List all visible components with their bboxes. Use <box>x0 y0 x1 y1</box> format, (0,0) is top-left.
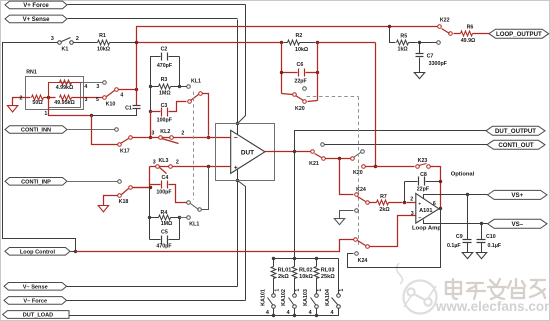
wire VS- line <box>424 220 488 224</box>
junction C9 tap <box>466 193 469 196</box>
junction C3 rail to inverting line <box>207 136 210 139</box>
port Loop Control <box>5 248 70 256</box>
wire V+ Force to right <box>68 4 246 6</box>
svg-text:Optional: Optional <box>451 172 475 178</box>
wire Loop Control to junction <box>71 251 76 253</box>
svg-text:KL1: KL1 <box>191 79 201 85</box>
svg-text:2: 2 <box>176 159 179 165</box>
svg-text:3300pF: 3300pF <box>429 61 448 67</box>
junction C1 / K17 node <box>90 114 93 117</box>
svg-text:RL01: RL01 <box>278 267 292 273</box>
wire V+ Sense to right <box>68 18 238 20</box>
relay linkage dashed from K20 <box>307 96 359 98</box>
wire V- Force <box>67 300 246 302</box>
svg-text:6: 6 <box>433 201 436 207</box>
wire A101 pin3 input <box>370 216 416 247</box>
capacitor C8 22pF <box>405 181 418 183</box>
port V- Sense <box>4 283 67 291</box>
svg-text:C3: C3 <box>161 103 168 109</box>
svg-text:10kΩ: 10kΩ <box>97 47 111 53</box>
contact K24 upper open to ground <box>355 209 359 213</box>
resistor R7 2k <box>370 202 377 204</box>
wire R5 to K22 contact <box>420 42 437 44</box>
capacitor C5 470pF <box>150 239 161 241</box>
svg-text:K24: K24 <box>358 258 368 264</box>
svg-text:C2: C2 <box>161 47 168 53</box>
wire DUT output down to load rail <box>294 152 296 259</box>
op-amp A101 triangle <box>416 193 439 223</box>
svg-text:4: 4 <box>120 92 123 98</box>
wire KL right rail upper <box>179 57 181 87</box>
resistor R6 49.9 <box>461 31 473 36</box>
svg-text:R4: R4 <box>161 210 168 216</box>
svg-text:K23: K23 <box>418 158 428 164</box>
switch K10 <box>103 96 107 100</box>
junction K24 tap <box>338 157 341 160</box>
svg-text:0.1µF: 0.1µF <box>487 243 501 249</box>
wire DUT supply stub top <box>237 124 239 135</box>
svg-text:50Ω: 50Ω <box>32 100 43 106</box>
wire RN1 pin4 to K10 open contact <box>82 82 103 84</box>
junction K10 / C1 rail <box>135 88 138 91</box>
svg-text:3: 3 <box>153 159 156 165</box>
svg-text:470pF: 470pF <box>157 63 173 69</box>
svg-text:Loop Amp: Loop Amp <box>412 225 441 231</box>
svg-text:3: 3 <box>96 84 99 90</box>
svg-text:1MΩ: 1MΩ <box>161 221 173 227</box>
resistor R3 1M <box>151 86 159 88</box>
wire K23 to output node <box>431 167 441 209</box>
svg-text:KA102: KA102 <box>281 289 287 306</box>
wire A101 pin2 input <box>407 202 416 204</box>
junction C8 right <box>439 180 442 183</box>
junction minus line left <box>149 136 152 139</box>
capacitor C6 22pF <box>282 72 298 74</box>
wire KL3 feed from K18 <box>131 167 150 188</box>
relay linkage dashed KL <box>193 92 195 200</box>
wire VS+ line <box>424 195 488 199</box>
svg-text:22pF: 22pF <box>294 78 307 84</box>
resistor R2 10k <box>284 42 288 44</box>
svg-text:K21: K21 <box>309 161 319 167</box>
port DUT_LOAD <box>3 311 69 319</box>
svg-text:22pF: 22pF <box>417 187 430 193</box>
wire DUT inverting input line <box>149 137 231 139</box>
svg-text:49.9Ω: 49.9Ω <box>461 38 476 44</box>
wire A101 output to K24 contact <box>348 209 441 268</box>
svg-text:3: 3 <box>151 131 154 137</box>
wire K1 left leg down to Loop Control <box>3 43 76 252</box>
wire C1 bottom to pin1 node <box>92 109 137 116</box>
capacitor C9 0.1uF <box>467 195 469 240</box>
svg-text:KA103: KA103 <box>303 289 309 306</box>
switch KA104 <box>337 294 341 298</box>
wire DUT bottom supply stub <box>237 170 239 181</box>
RN1 inner box <box>49 83 81 108</box>
svg-text:CONTI_INP: CONTI_INP <box>21 179 51 185</box>
port LOOP_OUTPUT <box>489 29 549 38</box>
svg-text:C1: C1 <box>125 105 132 111</box>
wire DUT output <box>265 151 312 153</box>
wire KA104 top leg <box>338 259 340 294</box>
svg-text:C7: C7 <box>427 54 434 60</box>
resistor R5 1k <box>397 40 409 45</box>
svg-text:RN1: RN1 <box>26 70 37 76</box>
svg-text:KL3: KL3 <box>158 158 168 164</box>
svg-text:KA104: KA104 <box>325 289 331 306</box>
op-amp DUT triangle <box>231 130 265 173</box>
port CONTI_INP <box>5 178 67 186</box>
wire RN1 pin1 down <box>49 98 92 116</box>
DUT box <box>216 124 275 181</box>
svg-text:2: 2 <box>76 36 79 42</box>
svg-text:2kΩ: 2kΩ <box>278 274 289 280</box>
junction R5 tap <box>388 25 391 28</box>
junction DUT top supply <box>236 122 239 125</box>
svg-text:C10: C10 <box>486 234 496 240</box>
junction R2 right <box>316 41 319 44</box>
wire R5 branch <box>390 27 396 43</box>
svg-text:R2: R2 <box>296 33 303 39</box>
wire R4C5 left rail <box>149 188 151 240</box>
relay linkage dashed K20-K24 <box>358 97 360 246</box>
resistor RL01 2k <box>273 259 275 267</box>
svg-text:R1: R1 <box>99 33 106 39</box>
switch K18 <box>118 180 122 184</box>
svg-text:4: 4 <box>331 310 334 316</box>
svg-text:R5: R5 <box>400 33 407 39</box>
switch K22 <box>438 25 442 29</box>
svg-text:1MΩ: 1MΩ <box>159 91 171 97</box>
svg-text:4: 4 <box>266 310 269 316</box>
svg-text:K1: K1 <box>62 47 69 53</box>
wire KL left rail red lower <box>150 112 152 138</box>
svg-text:C5: C5 <box>161 230 168 236</box>
svg-text:RL02: RL02 <box>299 267 313 273</box>
capacitor C4 100pF <box>150 184 161 186</box>
wire CONTI_OUT line <box>325 144 488 146</box>
svg-text:K18: K18 <box>119 199 129 205</box>
resistor network RN1 outer box <box>26 77 84 110</box>
switch KL2 (open) <box>159 136 163 140</box>
contact KL1 lower open <box>187 216 191 220</box>
wire Loop Control red line <box>76 240 354 252</box>
switch K17 <box>118 143 122 147</box>
svg-text:K20: K20 <box>353 170 363 176</box>
wire K22 to R6 <box>454 33 461 35</box>
svg-text:DUT_LOAD: DUT_LOAD <box>23 313 53 319</box>
svg-text:1: 1 <box>295 289 301 292</box>
svg-text:3: 3 <box>51 36 54 42</box>
contact K24 lower open <box>355 252 359 256</box>
svg-text:V+ Force: V+ Force <box>23 3 49 9</box>
capacitor C10 0.1uF <box>481 224 483 240</box>
resistor RL03 25k <box>316 259 318 267</box>
svg-text:+: + <box>418 202 421 207</box>
svg-text:R7: R7 <box>380 194 387 200</box>
svg-text:2: 2 <box>20 96 23 102</box>
svg-text:1: 1 <box>317 289 323 292</box>
port CONTI_INN <box>5 126 67 134</box>
wire DUT_OUTPUT line <box>295 131 487 152</box>
switch K24 upper <box>340 159 354 195</box>
svg-text:DUT: DUT <box>241 149 254 156</box>
wire K23 line <box>376 166 415 168</box>
junction K23 line <box>374 165 377 168</box>
svg-text:1: 1 <box>339 289 345 292</box>
port DUT_OUTPUT <box>486 126 545 135</box>
svg-text:V– Force: V– Force <box>23 299 47 305</box>
switch KA101 <box>272 294 276 298</box>
svg-text:4: 4 <box>84 84 87 90</box>
wire R1 to red rail <box>116 42 137 44</box>
wire C6 right leg <box>317 43 319 101</box>
contact K10 open <box>103 81 107 85</box>
svg-text:CONTI_OUT: CONTI_OUT <box>498 142 533 149</box>
svg-text:10kΩ: 10kΩ <box>295 47 309 53</box>
contact K22 open <box>437 41 441 45</box>
wire top red rail from C1 to K22 <box>137 27 440 106</box>
wire K1 to R1 <box>74 42 92 44</box>
wire loop compensation rail <box>137 42 282 44</box>
svg-text:C4: C4 <box>162 175 169 181</box>
svg-text:10kΩ: 10kΩ <box>299 274 313 280</box>
svg-text:K10: K10 <box>106 101 116 107</box>
svg-text:VS–: VS– <box>511 221 523 228</box>
junction plus line right <box>207 165 210 168</box>
resistor R4 1M <box>150 217 159 219</box>
wire V+ Force vertical rail <box>238 5 246 124</box>
svg-text:−: − <box>418 216 421 222</box>
contact K20 open upper <box>303 87 307 91</box>
svg-text:2: 2 <box>181 131 184 137</box>
switch K21 <box>311 150 315 154</box>
svg-text:3: 3 <box>85 97 88 103</box>
switch KL1 lower <box>187 201 191 205</box>
svg-text:−: − <box>234 135 238 142</box>
junction Loop Control node <box>74 250 77 253</box>
svg-text:V– Sense: V– Sense <box>23 284 48 290</box>
svg-text:KL2: KL2 <box>160 129 170 135</box>
capacitor C2 470pF <box>161 53 163 61</box>
svg-text:DUT_OUTPUT: DUT_OUTPUT <box>495 128 536 135</box>
svg-text:1kΩ: 1kΩ <box>398 47 409 53</box>
capacitor C3 100pF <box>149 110 152 113</box>
resistor R1 10k <box>98 40 110 45</box>
wire V- Force vertical rail <box>238 181 246 301</box>
wire rail to long red vertical <box>318 42 376 44</box>
svg-text:25kΩ: 25kΩ <box>321 274 335 280</box>
contact K17 open (CONTI_INN) <box>115 128 119 132</box>
switch K24 lower <box>354 238 358 242</box>
wire A101 output junction <box>439 207 442 210</box>
port V- Force <box>4 297 67 305</box>
switch K1 <box>58 41 62 45</box>
svg-text:A101: A101 <box>419 208 432 214</box>
svg-text:K17: K17 <box>120 148 130 154</box>
ground red input arrow <box>13 98 31 106</box>
svg-text:C9: C9 <box>456 234 463 240</box>
switch KL1 upper <box>188 100 192 104</box>
wire DUT_LOAD rail <box>70 309 339 316</box>
wire K21 to K20 and K24 tap <box>326 158 351 160</box>
switch KA102 <box>293 294 297 298</box>
junction DUT bottom supply <box>236 179 239 182</box>
port V+ Force <box>5 1 67 9</box>
svg-text:K20: K20 <box>295 106 305 112</box>
resistor RL02 10k <box>294 259 296 267</box>
svg-text:1: 1 <box>274 289 280 292</box>
switch KL3 (open) <box>156 165 160 169</box>
svg-text:5: 5 <box>96 97 99 103</box>
watermark elecfans logo + text <box>397 263 437 314</box>
wire KL filter left rail upper <box>151 57 161 112</box>
junction C10 tap <box>480 222 483 225</box>
wire R3 to KL1 contact <box>180 86 187 88</box>
switch KA103 <box>315 294 319 298</box>
junction RN1 tap <box>44 97 56 99</box>
switch K20 lower (open) <box>351 157 355 161</box>
svg-text:KA101: KA101 <box>260 289 266 306</box>
svg-text:Loop Control: Loop Control <box>20 249 56 255</box>
junction DUT output <box>293 150 296 153</box>
svg-text:VS+: VS+ <box>511 192 523 199</box>
port VS+ <box>488 190 547 199</box>
switch K23 <box>416 165 420 169</box>
contact KL1 open <box>187 85 191 89</box>
resistor RN1 49.95k <box>60 95 72 100</box>
resistor RN1 50ohm <box>32 95 44 100</box>
wire CONTI_INP to K18 contact <box>68 181 118 183</box>
wire V- Sense vertical rail <box>237 181 239 287</box>
svg-text:4.99kΩ: 4.99kΩ <box>56 85 74 91</box>
capacitor C1 <box>133 105 141 107</box>
svg-text:+: + <box>234 164 238 171</box>
wire V- Sense <box>67 286 238 288</box>
wire V+ Sense vertical rail <box>237 20 239 124</box>
switch K20 upper <box>282 94 293 95</box>
svg-text:KL1: KL1 <box>189 222 199 228</box>
resistor RN1 4.99k <box>49 83 60 98</box>
junction C7 tap <box>418 41 421 44</box>
port V+ Sense <box>5 15 67 23</box>
wire DUT non-inverting input line <box>150 166 231 168</box>
port CONTI_OUT <box>487 140 545 149</box>
wire load rail <box>274 258 339 260</box>
svg-text:C8: C8 <box>420 172 427 178</box>
svg-text:C6: C6 <box>297 62 304 68</box>
capacitor C7 3300pF <box>419 43 421 54</box>
contact K21 open to CONTI_OUT <box>321 143 325 147</box>
svg-text:R3: R3 <box>161 77 168 83</box>
svg-text:R6: R6 <box>467 25 474 31</box>
junction C8 left / R7 <box>403 201 406 204</box>
svg-text:LOOP_OUTPUT: LOOP_OUTPUT <box>496 31 542 38</box>
junction R1 / red rail <box>135 41 138 44</box>
svg-text:RL03: RL03 <box>321 267 335 273</box>
svg-text:2: 2 <box>410 197 413 203</box>
svg-text:1: 1 <box>44 111 47 117</box>
svg-text:4: 4 <box>287 310 290 316</box>
svg-text:CONTI_INN: CONTI_INN <box>21 128 51 134</box>
wire down to K17 <box>92 116 118 145</box>
svg-text:49.95kΩ: 49.95kΩ <box>54 100 75 106</box>
svg-text:470pF: 470pF <box>156 243 172 249</box>
wire C6 left leg <box>281 43 283 94</box>
svg-text:www.elecfans.com: www.elecfans.com <box>435 299 550 314</box>
wire CONTI_INN to K17 contact <box>68 129 115 131</box>
svg-text:100pF: 100pF <box>157 117 173 123</box>
port VS- <box>488 219 547 228</box>
svg-text:0.1µF: 0.1µF <box>447 243 461 249</box>
wire R4 to KL1 lower contact <box>180 217 187 219</box>
svg-text:V+ Sense: V+ Sense <box>23 17 51 23</box>
wire red vertical to K23 line <box>375 43 377 167</box>
svg-text:100pF: 100pF <box>156 189 172 195</box>
svg-text:2kΩ: 2kΩ <box>379 207 390 213</box>
junction K18 node <box>149 186 152 189</box>
junction R2 left <box>280 41 283 44</box>
svg-text:4: 4 <box>309 310 312 316</box>
svg-text:K24: K24 <box>356 187 366 193</box>
svg-text:K22: K22 <box>440 18 450 24</box>
